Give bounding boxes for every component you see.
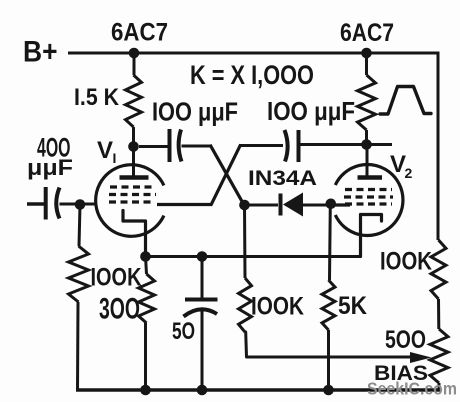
node V1 plate junction [128,141,139,152]
capacitor C4 curved plate [184,309,218,316]
capacitor C1 lead right [182,145,211,148]
diode D1 triangle [283,193,303,217]
tube V2 grid dashes row2 [344,195,393,198]
wire cathode node to R 300 [146,257,147,275]
wire stub right of V2 plate node [367,143,393,146]
svg-text:IOO μμF: IOO μμF [152,97,238,127]
capacitor C4 50 lead top [201,257,204,298]
tube V2 grid dashes row3 [345,202,392,205]
resistor R2 [358,75,376,130]
resistor R2 lead top [365,53,368,75]
svg-text:5OO: 5OO [385,326,426,354]
tube V1 plate bar [120,175,149,180]
svg-text:5K: 5K [338,292,367,320]
potentiometer 500 [430,329,448,383]
tube V2 cathode [361,215,382,257]
resistor R1 1.5K lead bottom [132,127,135,147]
svg-text:B+: B+ [23,36,58,69]
wire R 5K to ground rail [327,330,330,390]
capacitor C2 lead right [299,143,367,146]
tube V1 plate lead [132,147,135,177]
resistor R 300 cathode [139,274,155,323]
svg-text:IOOK: IOOK [91,264,142,292]
waveform pulse symbol [380,87,431,115]
node V2 plate junction [361,139,372,150]
tube V1 grid dashes row3 [109,200,151,203]
svg-text:6AC7: 6AC7 [340,19,394,47]
wire diode node down to R 100K mid [243,205,247,278]
tube V2 plate bar [358,175,383,180]
node V1 grid input junction [75,199,86,210]
node B+ junction V1 plate resistor [129,48,140,59]
tube V2 envelope [335,164,403,235]
node 50 ground [197,385,208,396]
svg-text:IOOK: IOOK [251,293,304,321]
node cathode bus left [140,251,151,262]
svg-text:μμF: μμF [27,155,73,180]
svg-text:K = X I,OOO: K = X I,OOO [190,60,314,90]
resistor R1 1.5K lead top [133,53,136,75]
svg-text:6AC7: 6AC7 [111,19,168,47]
tube V2 grid lead [331,203,350,206]
wire R 100K left to rail [76,302,80,392]
capacitor C4 straight plate [185,298,218,302]
capacitor C3 curved plate [56,188,59,219]
svg-text:SeekIC.com: SeekIC.com [367,379,457,399]
svg-text:IN34A: IN34A [248,167,317,190]
wire R 300 to rail [144,323,147,390]
diode D1 cathode bar [279,194,283,216]
resistor R 5K [322,280,335,330]
capacitor C3 straight plate [44,187,48,220]
resistor R 100K right [431,240,446,299]
tube V1 envelope [96,165,164,237]
wire 500 pot to rail [438,383,441,392]
wire between 100K right and 500 pot [437,299,440,329]
tube V1 cathode [123,211,146,257]
svg-text:IOO μμF: IOO μμF [267,96,355,126]
capacitor C1 100uuF lead left [139,145,168,148]
svg-text:3OO: 3OO [99,293,140,326]
wire ground rail [76,388,441,391]
capacitor C3 lead right [60,203,97,206]
node 5K ground [323,385,334,396]
tube V2 plate lead [366,145,369,177]
wire R 100K mid to bias corner [246,332,412,357]
svg-text:I.5 K: I.5 K [74,84,120,111]
tube V2 grid dashes row1 [345,188,392,191]
wire right border [437,52,440,241]
node diode left junction [239,200,250,211]
capacitor C2 curved plate [285,130,288,162]
node B+ junction V2 plate resistor [361,48,372,59]
wire B+ top rail [68,52,438,55]
resistor R 100K left [69,246,89,302]
svg-text:I: I [113,150,117,166]
capacitor C1 straight plate [168,129,172,162]
capacitor C2 straight plate [297,130,301,162]
svg-text:2: 2 [405,165,413,181]
wire input node down to R 100K left [79,205,80,246]
wire V1 grid to C2 (diagonal) [211,144,241,205]
capacitor C1 curved plate [179,130,182,162]
svg-text:5O: 5O [172,318,195,345]
node 300 ground [140,385,151,396]
svg-text:V: V [97,137,113,164]
node cathode bus cap50 [197,251,208,262]
wire C2 lead left [239,144,283,147]
diode D1 lead right [303,204,331,207]
wiper arrow to 500 pot [410,352,432,363]
wire diode node down to R 5K [328,205,332,280]
capacitor C3 400uuF lead left [27,202,44,205]
resistor R 100K mid [239,278,252,332]
resistor R2 lead bottom [365,130,368,145]
tube V1 grid dashes row2 [109,193,156,196]
capacitor C4 lead bottom [201,310,204,391]
wire C1 to diode-anode node (diagonal) [210,145,245,206]
diode D1 lead left [245,204,279,207]
wire V1 grid horizontal [157,203,212,206]
svg-text:IOOK: IOOK [380,248,432,276]
tube V1 grid dashes row1 [110,185,152,188]
node diode right junction [326,199,337,210]
resistor R1 1.5K [126,75,142,127]
wire cathode bus [146,255,361,258]
